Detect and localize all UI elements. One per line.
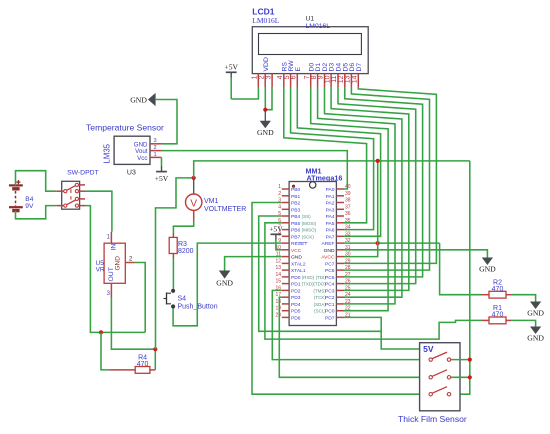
R3 labels [178, 241, 194, 255]
U5 IN OUT GND rotated labels [108, 244, 122, 282]
LM35 U3 label [127, 169, 136, 176]
+5V power symbol (LM35) [155, 166, 169, 183]
SW-DPDT label [67, 170, 99, 177]
svg-text:RESET: RESET [291, 241, 307, 247]
svg-text:15: 15 [275, 279, 281, 285]
svg-text:470: 470 [492, 286, 504, 293]
wire R4 branch down [101, 332, 110, 370]
wire LCD RS to ATmega [284, 87, 367, 223]
svg-text:24: 24 [345, 292, 351, 298]
svg-text:34: 34 [345, 225, 351, 231]
svg-text:(SS): (SS) [302, 214, 312, 219]
svg-text:39: 39 [345, 191, 351, 197]
wire AREF row to R2 branch [344, 242, 440, 244]
svg-text:PD0: PD0 [291, 275, 301, 281]
wire +5V node up-right rail [194, 161, 470, 178]
wire PD2 to sensor row1 [272, 290, 430, 359]
svg-text:VCC: VCC [291, 248, 302, 254]
svg-text:470: 470 [137, 361, 149, 368]
svg-text:Temperature Sensor: Temperature Sensor [86, 123, 164, 133]
svg-text:VDD: VDD [263, 57, 270, 71]
junction AVCC +5V rail [376, 159, 380, 163]
svg-text:PC1: PC1 [325, 302, 335, 308]
svg-text:22: 22 [345, 306, 351, 312]
voltage regulator U5 body [104, 243, 125, 283]
ATmega left pin stubs 1-20 [282, 189, 289, 317]
svg-text:B4: B4 [25, 196, 33, 203]
svg-text:GND: GND [115, 256, 122, 271]
svg-text:GND: GND [479, 265, 496, 274]
svg-text:470: 470 [492, 312, 504, 319]
svg-text:VOLTMETER: VOLTMETER [204, 206, 246, 213]
svg-text:GND: GND [527, 309, 544, 318]
resistor R1 470 [482, 305, 512, 324]
LCD pins 1-14 stubs [258, 74, 358, 87]
wire LCD E to ATmega [297, 87, 380, 236]
LM35 pin names [134, 141, 148, 162]
svg-text:PC3: PC3 [325, 288, 335, 294]
ground symbol (R1) [527, 327, 544, 343]
svg-text:+5V: +5V [269, 225, 283, 234]
LCD display U1 LM016L body [252, 27, 368, 74]
svg-text:VR: VR [96, 267, 105, 274]
svg-text:PC6: PC6 [325, 268, 335, 274]
wire ATmega GND pin11 [225, 257, 282, 271]
wire LCD D4 to ATmega [338, 87, 416, 284]
svg-text:PD4: PD4 [291, 302, 301, 308]
svg-text:4: 4 [278, 204, 281, 210]
svg-text:PB6: PB6 [291, 228, 301, 234]
svg-text:PB7: PB7 [291, 234, 301, 240]
svg-text:PB5: PB5 [291, 221, 301, 227]
svg-text:D7: D7 [356, 63, 363, 72]
switch pin stubs [56, 185, 85, 206]
wire U5 GND pin2 down [135, 263, 146, 333]
svg-text:(SCK): (SCK) [302, 234, 315, 239]
svg-text:PC0: PC0 [325, 309, 335, 315]
svg-text:1: 1 [154, 152, 157, 158]
svg-text:GND: GND [216, 279, 233, 288]
svg-text:5V: 5V [423, 344, 434, 354]
wire LCD pin2 down [264, 87, 266, 110]
sensor 5V label [423, 344, 434, 354]
svg-text:Thick Film Sensor: Thick Film Sensor [398, 414, 467, 424]
voltmeter VM1 [186, 178, 202, 221]
svg-text:GND: GND [527, 334, 544, 343]
svg-text:2: 2 [154, 145, 157, 151]
svg-text:36: 36 [345, 211, 351, 217]
svg-text:(MISO): (MISO) [302, 228, 317, 233]
svg-text:LM016L: LM016L [306, 23, 331, 30]
wire PD7 to sensor 5V [344, 317, 420, 349]
wire AVCC vertical [344, 161, 378, 257]
svg-text:GND: GND [257, 128, 274, 137]
resistor R3 8200 [169, 233, 177, 258]
battery labels B4 9V [25, 196, 34, 210]
svg-text:20: 20 [275, 312, 281, 318]
svg-text:6: 6 [291, 75, 298, 79]
svg-text:25: 25 [345, 285, 351, 291]
IC MM1 ATmega16 body [289, 182, 336, 326]
svg-text:33: 33 [345, 231, 351, 237]
svg-text:PC7: PC7 [325, 261, 335, 267]
ground symbol (LCD) [257, 110, 274, 137]
wire PB4 to sensor 5V rail [259, 216, 382, 331]
svg-text:(MOSI): (MOSI) [302, 221, 317, 226]
wire LCD D3 to ATmega [331, 87, 409, 290]
svg-text:+5V: +5V [224, 63, 238, 72]
junction VM1 +5V node [192, 176, 196, 180]
wire R2 to GND [511, 295, 536, 302]
svg-text:(RXD): (RXD) [302, 275, 315, 280]
LCD pin names VSS..D7 [263, 57, 363, 71]
svg-text:SW-DPDT: SW-DPDT [67, 170, 99, 177]
svg-text:14: 14 [352, 75, 359, 83]
svg-text:PB2: PB2 [291, 201, 301, 207]
ground symbol (LM35) [130, 94, 155, 105]
U5 pin stubs [111, 232, 134, 297]
VM1 labels [204, 198, 246, 213]
svg-text:18: 18 [275, 299, 281, 305]
svg-text:35: 35 [345, 218, 351, 224]
wire LCD RW to ATmega [291, 87, 374, 230]
svg-text:19: 19 [275, 306, 281, 312]
wire +5V to VCC pin10 [276, 240, 282, 250]
svg-text:U3: U3 [127, 169, 136, 176]
ATmega left pin numbers [275, 184, 281, 318]
wire sensor row1 right [451, 359, 470, 361]
svg-text:PA5: PA5 [326, 221, 335, 227]
resistor R2 470 [482, 280, 512, 299]
LM35 U3 body [114, 136, 150, 164]
svg-text:AVCC: AVCC [321, 255, 335, 261]
LCD U1 value label [306, 15, 331, 30]
push button S4 [164, 289, 175, 308]
wire R3 to S4 [172, 258, 174, 289]
svg-text:LM35: LM35 [103, 143, 112, 163]
wire +5V to LCD pin1 [231, 87, 258, 99]
wire LCD D7 to ATmega [344, 87, 436, 263]
svg-text:26: 26 [345, 279, 351, 285]
svg-text:PC2: PC2 [325, 295, 335, 301]
wire LCD pin3 to pin2 [265, 87, 272, 110]
resistor R4 470 [110, 355, 155, 374]
wire LM35 Vcc down [161, 157, 163, 166]
wire +5V rail up to VM1 node [156, 178, 194, 349]
ATmega16 MM1 ref labels [306, 166, 343, 182]
ground symbol (R2) [527, 302, 544, 318]
svg-text:+5V: +5V [155, 174, 169, 183]
svg-text:R3: R3 [178, 241, 187, 248]
svg-text:LM016L: LM016L [252, 16, 279, 25]
junction sensor row2 [468, 375, 472, 379]
svg-text:V: V [190, 198, 197, 209]
svg-text:PD6: PD6 [291, 315, 301, 321]
LM35 pin numbers 3 2 1 [154, 138, 157, 158]
svg-text:E: E [295, 67, 302, 72]
ATmega right pin names [313, 187, 335, 321]
svg-text:PC5: PC5 [325, 275, 335, 281]
svg-text:GND: GND [130, 96, 147, 105]
wire VM1 to R3 [173, 221, 193, 233]
svg-text:PB1: PB1 [291, 194, 301, 200]
svg-text:XTAL1: XTAL1 [291, 268, 306, 274]
svg-text:37: 37 [345, 204, 351, 210]
wire LCD D2 to ATmega [325, 87, 402, 297]
svg-text:PA6: PA6 [326, 228, 335, 234]
svg-text:PB3: PB3 [291, 207, 301, 213]
svg-text:PC4: PC4 [325, 282, 335, 288]
wire sensor common down [451, 161, 470, 394]
svg-text:S4: S4 [178, 296, 187, 303]
LCD pin numbers 1-14 [252, 75, 359, 83]
svg-text:AREF: AREF [321, 241, 334, 247]
wire ATmega GND pin31 to GND [344, 250, 487, 258]
S4 labels [178, 296, 218, 311]
wire switch to ground rail [85, 206, 101, 333]
svg-text:PA2: PA2 [326, 201, 335, 207]
svg-text:GND: GND [291, 255, 302, 261]
LM35 pin stubs [150, 144, 162, 158]
wire LM35 GND [155, 100, 177, 144]
+5V power symbol (LCD) [224, 63, 238, 99]
ATmega right pin stubs 21-40 [336, 189, 344, 317]
sensor switches [429, 352, 451, 396]
svg-text:27: 27 [345, 272, 351, 278]
wire PD3 to sensor row2 [279, 297, 430, 377]
svg-text:PD7: PD7 [325, 315, 335, 321]
svg-text:PA7: PA7 [326, 234, 335, 240]
Temperature Sensor title [86, 123, 164, 133]
Thick Film Sensor title [398, 414, 467, 424]
svg-text:38: 38 [345, 198, 351, 204]
svg-text:29: 29 [345, 258, 351, 264]
svg-text:Vcc: Vcc [137, 155, 147, 162]
svg-text:23: 23 [345, 299, 351, 305]
svg-text:14: 14 [275, 272, 281, 278]
U5 ref labels [96, 260, 105, 274]
svg-text:PA3: PA3 [326, 207, 335, 213]
svg-text:9V: 9V [25, 203, 34, 210]
svg-text:U1: U1 [306, 15, 315, 22]
LM35 rotated name [103, 143, 112, 163]
wire PB5 to R1 [265, 223, 482, 339]
svg-text:8200: 8200 [178, 248, 194, 255]
ground symbol (ATmega left) [216, 271, 233, 288]
svg-text:XTAL2: XTAL2 [291, 261, 306, 267]
ATmega left pin names [291, 187, 317, 321]
wire switch to U5 IN [85, 191, 112, 232]
svg-text:PB4: PB4 [291, 214, 301, 220]
wire LCD D6 to ATmega [344, 87, 430, 270]
battery B4 9V symbol [9, 180, 23, 211]
wire sensor row2 right [451, 376, 470, 378]
LCD LCD1 ref labels [252, 7, 279, 26]
wire ground rail [101, 331, 145, 333]
wire battery- to switch [16, 206, 57, 219]
+5V power symbol (ATmega VCC) [269, 225, 283, 240]
svg-text:GND: GND [324, 248, 335, 254]
junction LCD VDD-VEE [263, 108, 267, 112]
ATmega right pin numbers [345, 184, 351, 318]
wire LM35 Vout to ATmega PA0 [162, 151, 348, 189]
svg-text:PA4: PA4 [326, 214, 335, 220]
svg-text:IN: IN [111, 244, 118, 251]
svg-text:PD1: PD1 [291, 282, 301, 288]
wire AREF branch down to R2 [440, 243, 482, 295]
svg-text:LCD1: LCD1 [252, 7, 274, 17]
svg-text:PA0: PA0 [326, 187, 335, 193]
wire R4 right up to +5V node [154, 349, 156, 370]
junction +5V node R4 [153, 347, 157, 351]
junction AREF +5V [376, 241, 380, 245]
wire U5 OUT to +5V node [111, 297, 155, 349]
svg-text:VM1: VM1 [204, 198, 219, 205]
wire S4 to ATmega RESET [173, 243, 282, 326]
svg-text:2: 2 [278, 191, 281, 197]
wire LCD D1 to ATmega [318, 87, 395, 304]
wire LCD D5 to ATmega [344, 87, 423, 277]
svg-text:1: 1 [278, 184, 281, 190]
svg-text:PD2: PD2 [291, 288, 301, 294]
wire battery+ to switch [16, 171, 57, 192]
svg-text:3: 3 [154, 138, 157, 144]
ground symbol (right of ATmega) [479, 258, 496, 274]
svg-text:3: 3 [265, 75, 272, 79]
svg-text:28: 28 [345, 265, 351, 271]
wire PB2 to sensor row3 [252, 203, 431, 395]
svg-text:12: 12 [275, 258, 281, 264]
svg-text:13: 13 [275, 265, 281, 271]
switch SW-DPDT poles [64, 183, 79, 207]
wire R1 to GND [511, 320, 536, 327]
thick film sensor body [420, 343, 460, 411]
junction ground rail / R4 [99, 330, 103, 334]
svg-text:(TXD): (TXD) [302, 282, 314, 287]
svg-text:OUT: OUT [108, 267, 115, 281]
svg-text:PB0: PB0 [291, 187, 301, 193]
svg-text:PA1: PA1 [326, 194, 335, 200]
U5 pin numbers [107, 235, 133, 297]
junction sensor row1 [468, 358, 472, 362]
wire LCD D0 to ATmega [311, 87, 388, 311]
switch SW-DPDT body [62, 181, 80, 209]
svg-text:PD3: PD3 [291, 295, 301, 301]
svg-text:PD5: PD5 [291, 309, 301, 315]
